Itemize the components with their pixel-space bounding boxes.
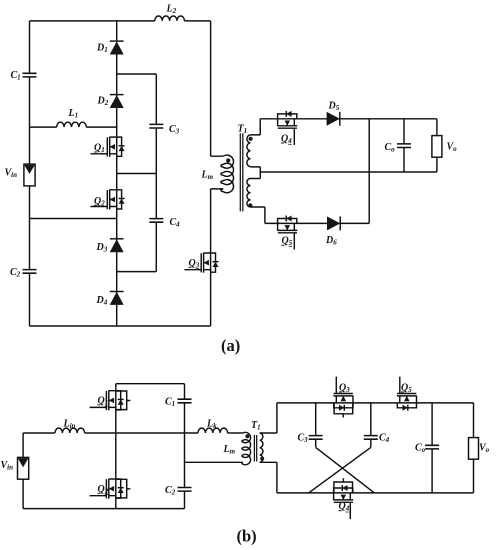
wire: output top rail xyxy=(260,118,437,120)
transistor Q1 xyxy=(91,137,125,157)
wire: top link to C1 xyxy=(116,383,185,385)
capacitor C3 xyxy=(149,124,163,128)
inductor L1 xyxy=(57,122,87,127)
wire: secondary bottom lead (b) xyxy=(260,462,277,493)
diode D1 xyxy=(110,41,124,54)
capacitor Co (a) xyxy=(397,144,411,148)
diode D6 xyxy=(327,216,340,230)
transistor Q5 xyxy=(277,216,297,250)
wire: jog to magnetizing winding xyxy=(211,156,224,189)
wire: center tap step xyxy=(251,167,261,179)
transistor Q5 (b) xyxy=(397,377,417,411)
transistor Q4 xyxy=(277,111,297,145)
node: secondary upper dot xyxy=(249,137,253,141)
transformer T1 core xyxy=(240,133,243,211)
transistor Q3 xyxy=(184,253,218,273)
source Vin (b) xyxy=(18,457,29,479)
wire: right leg (a) xyxy=(210,21,212,326)
wire: primary return xyxy=(185,461,243,463)
transistor Q2 (b) xyxy=(90,479,131,499)
wire: main diode/switch leg (a) xyxy=(116,21,118,326)
diode D4 xyxy=(110,292,124,305)
wire: half-bridge leg (b) xyxy=(115,384,117,509)
node: primary dot (b) xyxy=(245,434,249,438)
wire: secondary bottom lead xyxy=(251,207,265,223)
inductor Lm primary winding (b) xyxy=(242,432,251,464)
load Vo (a) xyxy=(432,136,442,158)
wire: output top rail (b) xyxy=(277,402,474,404)
wire: Q1-Q2 midpoint to C3/C4 midpoint xyxy=(117,173,157,175)
wire: output bottom rail (b) xyxy=(277,492,474,494)
wire: center tap to output return xyxy=(260,171,437,173)
capacitor C1 (b) xyxy=(178,399,192,403)
capacitor C3 (b) xyxy=(309,436,323,440)
node: secondary lower dot xyxy=(248,203,252,207)
wire: left rail (a) xyxy=(29,21,31,326)
svg-text:(b): (b) xyxy=(237,527,257,546)
wire: cross link C4 to rail xyxy=(309,447,371,493)
wire: input bottom rail (b) xyxy=(23,508,184,510)
wire: L1 branch xyxy=(30,126,117,128)
capacitor C2 (b) xyxy=(178,488,192,492)
wire: left rail (b) xyxy=(22,433,24,509)
wire: bottom rail (a) xyxy=(30,325,211,327)
wire: Vo branch (b) xyxy=(473,403,475,493)
capacitor C1 xyxy=(23,73,37,77)
wire: cross link C3 to rail xyxy=(316,447,375,493)
wire: Co branch (b) xyxy=(431,403,433,493)
wire: C3 branch (b) xyxy=(315,403,317,448)
inductor L2 xyxy=(155,16,185,21)
diode D3 xyxy=(110,239,124,252)
wire: C4 branch (b) xyxy=(370,403,372,448)
transistor Q4 (b) xyxy=(333,478,353,519)
wire: lower secondary rail xyxy=(265,222,369,224)
diode D5 xyxy=(327,112,340,126)
source Vin (a) xyxy=(24,164,35,186)
wire: C3/C4 branch xyxy=(155,74,157,272)
node: secondary dot (b) xyxy=(260,457,264,461)
wire: Vo branch (a) xyxy=(436,119,438,172)
wire: secondary top lead to output top rail xyxy=(251,119,261,135)
transformer T1 core (b) xyxy=(254,435,256,462)
capacitor C4 xyxy=(149,219,163,223)
svg-text:(a): (a) xyxy=(221,336,240,355)
transistor Q1 (b) xyxy=(90,390,131,410)
inductor Lk xyxy=(198,428,228,433)
winding: secondary upper xyxy=(247,135,251,167)
wire: top rail (a) xyxy=(30,20,211,22)
capacitor Co (b) xyxy=(425,445,439,449)
winding: secondary lower xyxy=(247,178,251,207)
load Vo (b) xyxy=(469,438,479,460)
wire: left rail to Q2 source node xyxy=(30,218,117,220)
wire: Co branch (a) xyxy=(403,119,405,172)
wire: secondary top lead (b) xyxy=(260,403,277,433)
wire: input top rail (b) xyxy=(23,432,243,434)
capacitor C4 (b) xyxy=(364,436,378,440)
wire: D6 to top rail riser xyxy=(368,119,370,224)
wire: C1/C2 branch xyxy=(184,384,186,509)
transistor Q2 xyxy=(91,190,125,210)
transistor Q3 (b) xyxy=(333,377,353,418)
capacitor C2 xyxy=(23,270,37,274)
inductor Lm primary winding xyxy=(221,155,234,193)
wire: D1-D2 node to C3 top xyxy=(117,73,157,75)
wire: D3-D4 node to C4 bottom xyxy=(117,271,157,273)
diode D2 xyxy=(110,95,124,108)
inductor Lin xyxy=(55,428,85,433)
winding: secondary (b) xyxy=(260,433,263,462)
node: primary dot xyxy=(226,158,230,162)
